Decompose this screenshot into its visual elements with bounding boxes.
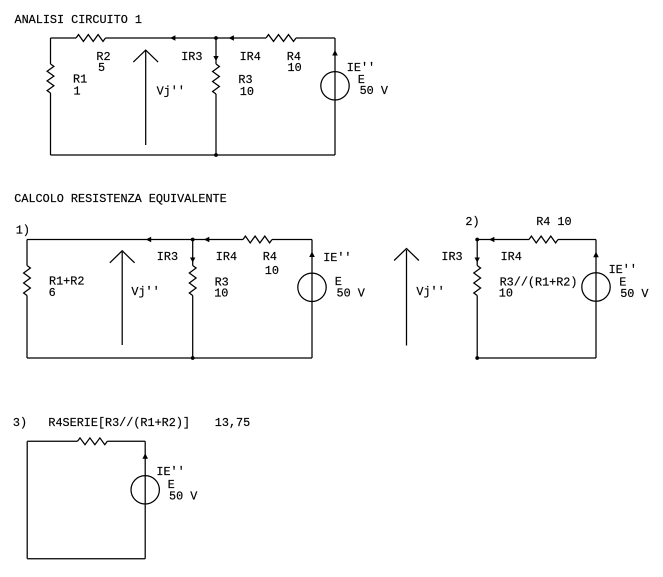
wire D bottom (27, 558, 145, 560)
current arrow IR3 on B top wire (146, 237, 151, 242)
wire C left bottom (476, 296, 478, 359)
current arrow down into R3 (213, 56, 218, 61)
resistor D R4serie (78, 438, 108, 445)
node B bottom junction (191, 356, 195, 360)
wire A top middle segment (106, 37, 267, 39)
wire C left top (476, 240, 478, 266)
wire B right (through source) (311, 240, 313, 359)
svg-text:3): 3) (13, 416, 27, 430)
voltage arrow C Vj'' (406, 250, 408, 346)
current source IE'' circle (321, 72, 349, 100)
wire A left top segment (50, 38, 52, 64)
wire C top-left segment (477, 239, 529, 241)
svg-text:IE'': IE'' (323, 251, 351, 265)
wire B left top segment (26, 240, 28, 266)
resistor R4 (266, 35, 296, 42)
wire B top-right segment (272, 239, 312, 241)
wire D top-right segment (107, 440, 145, 442)
svg-text:IE'': IE'' (156, 465, 184, 479)
svg-text:50 V: 50 V (337, 286, 366, 300)
svg-text:IR3: IR3 (157, 250, 178, 264)
node B top junction (191, 238, 195, 242)
svg-text:R4 10: R4 10 (536, 215, 571, 229)
current arrow IR4 on C top wire (489, 237, 494, 242)
svg-text:10: 10 (240, 85, 254, 99)
wire B R3 branch top (192, 240, 194, 266)
svg-text:10: 10 (214, 287, 228, 301)
wire A top-right segment (296, 37, 335, 39)
svg-text:50 V: 50 V (169, 489, 198, 503)
resistor C R3//(R1+R2) (474, 266, 481, 296)
svg-text:1): 1) (16, 224, 30, 238)
wire A top-left segment (51, 37, 77, 39)
svg-text:2): 2) (465, 215, 479, 229)
voltage arrow B Vj'' (121, 252, 123, 345)
svg-text:IR4: IR4 (240, 50, 261, 64)
wire A R3 branch bottom (215, 94, 217, 155)
resistor B R4 (243, 236, 272, 243)
svg-text:6: 6 (49, 286, 56, 300)
svg-text:13,75: 13,75 (215, 416, 250, 430)
wire C bottom (477, 357, 596, 359)
voltage arrow Vj'' (145, 51, 147, 145)
node A bottom junction (214, 153, 218, 157)
svg-text:1: 1 (74, 84, 81, 98)
resistor C R4 (529, 236, 558, 243)
wire D right (through source) (144, 441, 146, 558)
svg-text:50 V: 50 V (360, 84, 389, 98)
svg-text:CALCOLO RESISTENZA EQUIVALENTE: CALCOLO RESISTENZA EQUIVALENTE (14, 192, 226, 206)
wire A bottom (51, 154, 336, 156)
svg-text:Vj'': Vj'' (157, 85, 185, 99)
wire A R3 branch top (215, 38, 217, 64)
wire A left bottom segment (50, 93, 52, 155)
wire B left bottom segment (26, 296, 28, 359)
svg-text:Vj'': Vj'' (416, 285, 444, 299)
node C top-left junction (475, 238, 479, 242)
current source D IE'' circle (131, 476, 159, 504)
svg-text:IR3: IR3 (441, 250, 462, 264)
wire B R3 branch bottom (192, 296, 194, 359)
svg-text:10: 10 (265, 264, 279, 278)
current arrow IR3 (left, on top wire) (170, 35, 175, 40)
wire A right (through source) (334, 38, 336, 155)
wire C right (through source) (595, 240, 597, 359)
current source C IE'' circle (582, 273, 610, 301)
resistor R1+R2 (24, 266, 31, 296)
current arrow IE up on right wire (332, 50, 338, 56)
current arrow up on B right wire (309, 252, 315, 258)
wire B bottom (27, 357, 312, 359)
resistor R2 (76, 35, 106, 42)
wire D top-left segment (27, 440, 77, 442)
current arrow IR4 on B top wire (204, 237, 209, 242)
svg-text:50 V: 50 V (620, 287, 649, 301)
svg-text:10: 10 (288, 61, 302, 75)
resistor R1 (47, 64, 54, 93)
svg-text:IR4: IR4 (501, 250, 522, 264)
svg-text:IR3: IR3 (181, 50, 202, 64)
current arrow up on C right wire (593, 252, 599, 258)
node A top junction (214, 36, 218, 40)
svg-text:5: 5 (98, 61, 105, 75)
resistor R3 (213, 64, 220, 94)
svg-text:Vj'': Vj'' (131, 285, 159, 299)
node C bottom-left junction (475, 356, 479, 360)
resistor B R3 (189, 266, 196, 296)
current arrow IR4 (left, on top wire right of node) (229, 35, 234, 40)
current source B IE'' circle (298, 273, 326, 301)
svg-text:IR4: IR4 (216, 250, 237, 264)
wire B top-left segment (27, 239, 243, 241)
svg-text:R4SERIE[R3//(R1+R2)]: R4SERIE[R3//(R1+R2)] (48, 416, 190, 430)
svg-text:R4: R4 (263, 250, 277, 264)
svg-text:10: 10 (499, 287, 513, 301)
current arrow down into C R3eq (475, 258, 480, 263)
current arrow down into B R3 (190, 258, 195, 263)
wire D left (26, 441, 28, 558)
current arrow up on D right wire (142, 453, 148, 459)
wire C top-right segment (558, 239, 596, 241)
svg-text:ANALISI CIRCUITO 1: ANALISI CIRCUITO 1 (15, 13, 142, 27)
